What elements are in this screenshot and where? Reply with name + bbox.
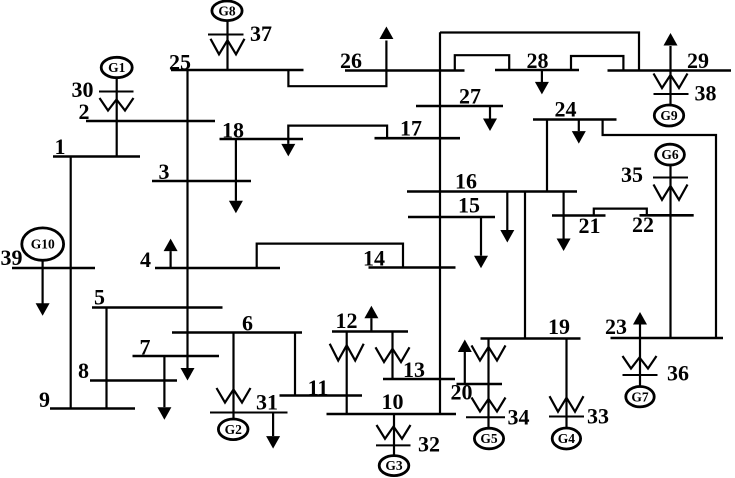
transformer 23-36 zigzag xyxy=(623,356,657,369)
bus 17 bar xyxy=(375,137,461,140)
svg-text:37: 37 xyxy=(250,21,272,46)
bus 3 bar xyxy=(152,180,251,183)
bus 27 bar xyxy=(416,105,503,108)
bus 15 bar xyxy=(408,216,495,219)
svg-text:35: 35 xyxy=(621,162,643,187)
transformer 29-38 zigzag xyxy=(654,74,688,89)
load arrow bus 23 up xyxy=(639,325,641,339)
load arrow bus 4 up xyxy=(170,251,172,268)
svg-text:11: 11 xyxy=(308,375,329,400)
svg-text:3: 3 xyxy=(159,159,170,184)
svg-text:16: 16 xyxy=(455,169,477,194)
bus 21 bar xyxy=(552,214,606,217)
bus 32 bar (generator bus) xyxy=(376,444,411,446)
load arrow bus 27 xyxy=(489,106,491,119)
load arrow bus 16 xyxy=(506,192,508,231)
load arrow bus 7 xyxy=(163,356,165,407)
svg-text:14: 14 xyxy=(363,246,385,271)
svg-text:21: 21 xyxy=(579,213,601,238)
wire 19-33-G4 vertical xyxy=(565,339,567,429)
svg-text:6: 6 xyxy=(242,311,253,336)
bus 35 bar (generator bus) xyxy=(653,177,688,179)
svg-text:4: 4 xyxy=(140,247,151,272)
bus 36 bar (generator bus) xyxy=(623,374,658,376)
wire 18-3 with load arrow bus 3 xyxy=(235,139,237,201)
svg-text:26: 26 xyxy=(340,48,362,73)
bus 39 bar xyxy=(12,267,95,270)
transformer 19-20 zigzag xyxy=(472,345,506,360)
wire 19-20-34-G5 vertical xyxy=(487,339,489,429)
load arrow bus 31 xyxy=(272,413,274,436)
generator G9 xyxy=(654,105,683,126)
bus 4 bar xyxy=(155,267,280,270)
generator G8 xyxy=(212,1,242,21)
wire 6-11 vertical xyxy=(294,333,296,396)
svg-text:23: 23 xyxy=(605,314,627,339)
wire 6-31-G2 vertical xyxy=(232,333,234,420)
svg-text:G7: G7 xyxy=(631,389,649,404)
svg-text:G8: G8 xyxy=(218,3,236,18)
wire G10-39 xyxy=(41,260,43,268)
wire 16-24 vertical xyxy=(546,120,548,192)
bus 10 bar xyxy=(327,413,457,416)
svg-text:19: 19 xyxy=(548,314,570,339)
load arrow bus 18 xyxy=(287,139,289,144)
svg-text:30: 30 xyxy=(72,77,94,102)
load arrow bus 12 up xyxy=(370,318,372,331)
bus 16 bar xyxy=(407,190,577,193)
bus 28 bar xyxy=(495,69,579,72)
wire G6-35-22 vertical xyxy=(669,165,671,215)
generator G2 xyxy=(218,419,248,440)
wire central vertical 26-27-17-16-15-14-13-10 xyxy=(439,32,441,414)
svg-text:10: 10 xyxy=(382,389,404,414)
generator G6 xyxy=(656,144,685,165)
generator G4 xyxy=(552,428,580,449)
load arrow bus 15 xyxy=(480,217,482,256)
wire top link 26-29 xyxy=(440,33,639,71)
svg-text:G3: G3 xyxy=(385,458,403,473)
svg-text:22: 22 xyxy=(632,212,654,237)
wire 16-21 with load arrow bus 21 xyxy=(562,192,564,240)
svg-text:38: 38 xyxy=(695,81,717,106)
wire 25-2-3-load long vertical xyxy=(186,70,188,369)
load arrow bus 26 up xyxy=(385,41,387,71)
svg-text:20: 20 xyxy=(451,380,473,405)
generator G10 xyxy=(22,228,64,260)
svg-text:5: 5 xyxy=(94,285,105,310)
bus 6 bar xyxy=(172,331,302,334)
svg-text:33: 33 xyxy=(587,404,609,429)
wire link 24-23 xyxy=(603,120,716,339)
generator G5 xyxy=(474,428,503,449)
bus 11 bar xyxy=(280,394,363,397)
svg-text:G4: G4 xyxy=(558,431,576,446)
generator G1 xyxy=(101,57,132,77)
svg-text:17: 17 xyxy=(400,116,422,141)
wire 16-19 vertical xyxy=(524,192,526,339)
load arrow bus 29 up xyxy=(669,46,671,71)
transformer 25-37 zigzag xyxy=(211,39,245,55)
bus 38 bar (generator bus) xyxy=(654,93,689,95)
bus 2 bar xyxy=(86,120,215,123)
load arrow bus 24 xyxy=(578,120,580,132)
svg-text:7: 7 xyxy=(140,335,151,360)
transformer 22-35 zigzag xyxy=(654,185,688,200)
svg-text:32: 32 xyxy=(418,432,440,457)
svg-text:29: 29 xyxy=(687,48,709,73)
bus 9 bar xyxy=(50,407,135,410)
bus 25 bar xyxy=(171,69,304,72)
svg-text:34: 34 xyxy=(508,405,530,430)
svg-text:G6: G6 xyxy=(661,147,679,162)
svg-text:G2: G2 xyxy=(225,422,243,437)
transformer 11-12 zigzag xyxy=(330,344,364,361)
bus 8 bar xyxy=(90,379,177,382)
bus 37 bar (generator bus) xyxy=(208,34,244,36)
transformer 6-31 zigzag xyxy=(217,388,251,403)
wire G8-37-25 vertical xyxy=(226,20,228,71)
svg-text:G9: G9 xyxy=(660,108,678,123)
bus 33 bar (generator bus) xyxy=(549,416,584,418)
generator G3 xyxy=(379,456,409,476)
wire 29-38-G9 vertical xyxy=(669,71,671,106)
svg-text:24: 24 xyxy=(555,97,577,122)
bus 5 bar xyxy=(92,306,223,309)
svg-text:39: 39 xyxy=(1,245,23,270)
svg-text:15: 15 xyxy=(458,193,480,218)
wire 12-11-10 vertical xyxy=(346,332,348,415)
svg-text:9: 9 xyxy=(39,387,50,412)
transformer 12-13 zigzag xyxy=(376,347,410,362)
load arrow below long vertical xyxy=(181,368,195,381)
wire G1-30-2-1 vertical xyxy=(116,78,118,157)
transformer 2-30 zigzag xyxy=(100,98,134,111)
svg-text:31: 31 xyxy=(256,390,278,415)
svg-text:G1: G1 xyxy=(108,60,126,75)
bus 22 bar xyxy=(640,214,694,217)
wire bridge 18-17 xyxy=(288,126,387,139)
svg-text:G10: G10 xyxy=(31,237,55,252)
svg-text:36: 36 xyxy=(667,361,689,386)
generator G7 xyxy=(626,387,654,407)
svg-text:8: 8 xyxy=(78,358,89,383)
wire bridge 28-29 xyxy=(571,56,623,71)
wire bridge 4-14 xyxy=(257,244,403,268)
bus 31 bar (generator bus) xyxy=(210,412,288,414)
bus 30 bar (generator bus) xyxy=(99,91,134,93)
transformer 19-33 zigzag xyxy=(550,396,584,412)
svg-text:13: 13 xyxy=(403,357,425,382)
bus 18 bar xyxy=(220,138,304,141)
wire 5-8-9 vertical xyxy=(105,308,107,409)
svg-text:18: 18 xyxy=(222,118,244,143)
bus 29 bar xyxy=(608,69,732,72)
bus 1 bar xyxy=(53,155,140,158)
svg-text:12: 12 xyxy=(336,308,358,333)
wire 1-39-9 vertical xyxy=(70,157,72,409)
wire bridge 26-28 xyxy=(455,55,509,70)
svg-text:1: 1 xyxy=(55,134,66,159)
svg-text:27: 27 xyxy=(459,84,481,109)
transformer 20-34 zigzag xyxy=(472,398,506,412)
svg-text:25: 25 xyxy=(169,50,191,75)
wire 22-23 vertical xyxy=(669,215,671,338)
load arrow bus 20 up xyxy=(464,352,466,385)
wire 10-32-G3 vertical xyxy=(393,414,395,456)
wire 23-36-G7 vertical xyxy=(639,338,641,387)
load arrow bus 39 xyxy=(41,268,43,304)
svg-text:2: 2 xyxy=(79,99,90,124)
load arrow bus 28 xyxy=(541,70,543,82)
bus 20 bar xyxy=(457,383,503,386)
svg-text:G5: G5 xyxy=(480,431,498,446)
transformer 10-32 zigzag xyxy=(377,425,411,439)
bus 19 bar xyxy=(481,337,581,340)
svg-text:28: 28 xyxy=(527,48,549,73)
bus 12 bar xyxy=(332,330,408,333)
bus 23 bar xyxy=(611,337,724,340)
bus 34 bar (generator bus) xyxy=(466,416,505,418)
bus 7 bar xyxy=(133,355,220,358)
bus 14 bar xyxy=(369,266,456,269)
bus 13 bar xyxy=(383,378,455,381)
wire bridge 21-22 xyxy=(594,209,647,216)
wire 12-13 vertical xyxy=(391,332,393,380)
wire link 25-26 U shape xyxy=(288,70,386,86)
bus 24 bar xyxy=(533,118,617,121)
bus 26 bar xyxy=(345,69,465,72)
